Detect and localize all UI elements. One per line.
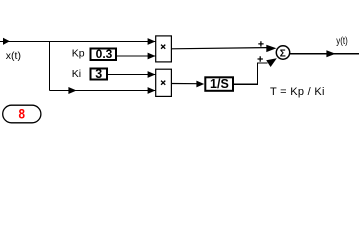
- arrowhead: output wire: [326, 50, 335, 57]
- wire: branch vertical: [49, 42, 51, 91]
- svg-text:Σ: Σ: [280, 48, 286, 59]
- svg-text:3: 3: [95, 67, 102, 81]
- arrowhead: into product U1 input 1: [148, 38, 156, 45]
- plus sign: sum upper input: [258, 41, 263, 46]
- svg-text:y(t): y(t): [336, 35, 348, 47]
- wire: product U2 to integrator: [172, 83, 198, 85]
- label Ki: [72, 68, 81, 80]
- svg-text:Kp: Kp: [72, 48, 85, 60]
- svg-text:Ki: Ki: [72, 68, 81, 80]
- label y(t): [336, 35, 348, 47]
- wire: input x(t) horizontal: [0, 41, 156, 43]
- wire: 0.3 to product U1: [117, 55, 156, 57]
- svg-text:0.3: 0.3: [96, 47, 113, 61]
- arrowhead: into sum upper input: [266, 45, 276, 52]
- arrowhead: input wire start: [3, 38, 10, 45]
- label x(t): [6, 50, 21, 62]
- svg-text:x(t): x(t): [6, 50, 21, 62]
- plus sign: sum lower input: [258, 56, 263, 61]
- constant block 3: [91, 67, 108, 81]
- wire: sum to output y(t): [290, 53, 359, 55]
- label T = Kp / Ki: [270, 86, 325, 98]
- wire: product U1 to sum: [172, 48, 268, 49]
- svg-text:1/S: 1/S: [210, 77, 229, 91]
- arrowhead: mid branch wire: [68, 87, 76, 94]
- arrowhead: into integrator 1/S: [196, 81, 204, 88]
- svg-text:T = Kp / Ki: T = Kp / Ki: [270, 86, 325, 98]
- svg-text:8: 8: [18, 105, 25, 121]
- wire: branch bottom horizontal: [50, 90, 156, 92]
- sum block S1 (sigma circle): [276, 46, 289, 60]
- badge: page number 8: [3, 105, 41, 123]
- product block U2 (x): [156, 69, 172, 96]
- arrowhead: into product U1 input 2: [148, 53, 156, 60]
- arrowhead: into product U2 input 2: [148, 87, 156, 94]
- label Kp: [72, 48, 85, 60]
- arrowhead: into product U2 input 1: [148, 71, 156, 78]
- arrowhead: into sum lower input (angled): [266, 58, 277, 67]
- product block U1 (x): [156, 36, 172, 62]
- integrator block 1/S: [205, 77, 233, 91]
- wire: 3 to product U2: [108, 74, 156, 76]
- wire: integrator up to sum (L path): [234, 63, 268, 84]
- constant block 0.3: [91, 47, 117, 61]
